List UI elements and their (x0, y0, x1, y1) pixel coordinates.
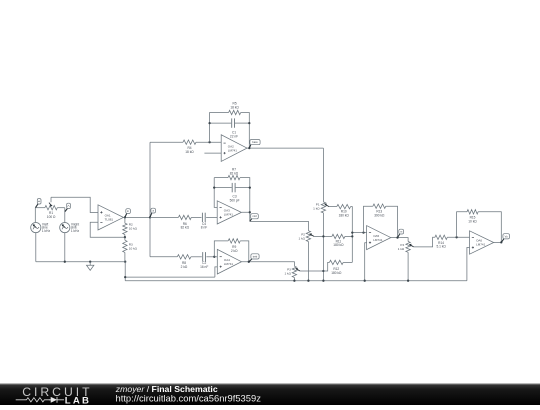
potentiometer P2 (306, 231, 314, 242)
svg-text:1 kHz: 1 kHz (71, 229, 80, 233)
junction (124, 216, 126, 218)
flag bass (249, 140, 260, 148)
label R7 (230, 168, 239, 176)
svg-text:1 kHz: 1 kHz (42, 229, 51, 233)
svg-text:5.1 kΩ: 5.1 kΩ (436, 245, 446, 249)
wire bass cap row (210, 122, 250, 124)
resistor R12 (329, 260, 343, 264)
label P3 (284, 268, 291, 276)
label R13 (374, 209, 385, 217)
footer title text (115, 384, 261, 404)
potentiometer R1 (pan) (45, 206, 57, 210)
junction (322, 280, 324, 282)
wire rail A (125, 276, 215, 278)
svg-text:180 kΩ: 180 kΩ (339, 213, 350, 217)
capacitor C1 (232, 118, 235, 127)
wire (240, 178, 250, 213)
junction (396, 236, 398, 238)
flag mid (250, 214, 258, 222)
junction (249, 211, 251, 213)
wire mid out (242, 212, 309, 230)
svg-text:1 kΩ: 1 kΩ (313, 207, 320, 211)
label R11 (333, 239, 344, 247)
wire (447, 236, 469, 238)
junction (213, 256, 215, 258)
junction (89, 261, 91, 263)
wire (35, 233, 37, 262)
label P4 (398, 243, 405, 251)
junction (64, 261, 66, 263)
label R4 (185, 146, 194, 154)
wire ground rail (36, 261, 125, 263)
resistor R7 (228, 175, 240, 179)
wire mid cap row (214, 187, 250, 189)
wire P4 bottom (407, 252, 409, 280)
svg-text:LAB: LAB (65, 395, 91, 405)
wire treb out (242, 262, 295, 266)
svg-text:2 kΩ: 2 kΩ (231, 249, 238, 253)
svg-text:16 nF: 16 nF (200, 265, 208, 269)
wire (206, 256, 217, 258)
junction (362, 231, 364, 233)
wire OA4 + to rail (215, 267, 217, 277)
wire OA6 fb right (478, 212, 501, 243)
flag Vo (501, 234, 509, 243)
svg-text:8 nF: 8 nF (201, 226, 207, 230)
wire (150, 256, 177, 258)
flag OA1 out (125, 209, 131, 218)
flag m (398, 229, 404, 237)
resistor R8 (177, 255, 191, 259)
svg-text:LM741: LM741 (224, 262, 234, 266)
wire (150, 141, 183, 143)
R1 wiper arrow (49, 197, 53, 207)
wire (345, 235, 352, 237)
wire (150, 216, 178, 218)
resistor R13 (373, 204, 386, 208)
svg-text:LM741: LM741 (373, 238, 383, 242)
junction (351, 235, 353, 237)
label R12 (331, 267, 342, 275)
svg-text:bass: bass (252, 140, 258, 144)
wire OA2 + stub (204, 152, 221, 154)
op-amp OA3 (217, 201, 241, 224)
junction (364, 280, 366, 282)
wire P1 bottom (322, 213, 324, 281)
svg-text:10 kΩ: 10 kΩ (129, 247, 138, 251)
wire P1 wiper out (329, 206, 337, 208)
junction (208, 141, 210, 143)
op-amp OA5 (367, 226, 391, 250)
svg-text:1 kΩ: 1 kΩ (284, 272, 291, 276)
svg-text:180 kΩ: 180 kΩ (333, 243, 344, 247)
junction (248, 122, 250, 124)
label C1 (230, 131, 238, 139)
wire (35, 207, 45, 209)
label C3 (230, 194, 240, 202)
CircuitLab logo (16, 385, 93, 407)
wire OA1 feedback (90, 222, 125, 237)
capacitor C4 (202, 213, 205, 222)
label C4 (201, 222, 207, 230)
label P2 (299, 233, 306, 241)
wire bass fb left (210, 113, 229, 143)
capacitor C2 (203, 252, 206, 261)
svg-text:TL081: TL081 (105, 218, 114, 222)
junction (293, 280, 295, 282)
label R15 (468, 216, 477, 224)
wire OA6 fb left (457, 212, 467, 238)
resistor R14 (435, 235, 447, 239)
junction (351, 231, 353, 233)
label V2 (71, 222, 80, 233)
resistor R9 (228, 239, 240, 243)
label R5 (230, 102, 239, 110)
junction (500, 241, 502, 243)
svg-text:100 Ω: 100 Ω (47, 215, 56, 219)
label C2 (200, 261, 208, 269)
op-amp OA1 (98, 205, 123, 230)
label R2 (129, 223, 138, 231)
op-amp OA2 (221, 135, 247, 162)
potentiometer P3 (292, 266, 300, 277)
wire OA1 out (123, 216, 150, 218)
label R3 (129, 243, 138, 251)
resistor R2 (123, 217, 127, 237)
wire (196, 141, 221, 143)
wire jog (323, 262, 329, 271)
svg-text:LM741: LM741 (228, 148, 238, 152)
wire bass out (247, 147, 323, 149)
wire (351, 207, 353, 263)
svg-text:18 kΩ: 18 kΩ (230, 106, 239, 110)
svg-text:10 kΩ: 10 kΩ (468, 220, 477, 224)
resistor R15 (467, 210, 478, 214)
svg-text:2 kΩ: 2 kΩ (181, 265, 188, 269)
junction (322, 235, 324, 237)
potentiometer P1 (321, 202, 329, 213)
wire P3 bottom (293, 278, 295, 281)
source V2 Vright (60, 223, 70, 233)
wire OA6 + to rail (467, 248, 470, 281)
svg-text:mid: mid (252, 214, 257, 218)
wire OA3 - stub (214, 178, 217, 208)
wire mid fb top (214, 177, 228, 179)
footer bar (0, 383, 540, 405)
wire (57, 207, 65, 209)
junction (124, 261, 126, 263)
source V1 Vleft (31, 223, 41, 233)
potentiometer P4 (406, 242, 414, 253)
junction node a (149, 216, 151, 218)
svg-text:LM741: LM741 (224, 213, 234, 217)
junction (248, 147, 250, 149)
wire (64, 208, 66, 223)
wire bass to P1 (322, 148, 324, 202)
svg-text:1 kΩ: 1 kΩ (398, 247, 405, 251)
flag node a (150, 208, 155, 217)
label R1 100 (47, 211, 56, 219)
svg-text:22 nF: 22 nF (230, 134, 238, 138)
svg-text:82 kΩ: 82 kΩ (230, 172, 239, 176)
svg-text:10 kΩ: 10 kΩ (129, 227, 138, 231)
wire (64, 233, 66, 262)
capacitor C3 (232, 183, 235, 192)
svg-text:m: m (400, 231, 402, 234)
junction (208, 122, 210, 124)
resistor R5 (229, 110, 241, 114)
wire P2 wiper out (314, 235, 332, 237)
label R14 (436, 241, 446, 249)
wire rail drop (124, 262, 126, 281)
wire OA5 + to rail (365, 243, 367, 281)
probe flag right (65, 203, 70, 211)
resistor R4 (183, 140, 196, 144)
svg-text:18 kΩ: 18 kΩ (185, 150, 194, 154)
label R8 (181, 261, 188, 269)
wire OA5 fb left (364, 206, 373, 232)
label R10 (339, 210, 350, 218)
wire (240, 241, 249, 262)
wire bass fb right (241, 113, 250, 149)
svg-text:treb: treb (253, 254, 258, 258)
svg-text:390 kΩ: 390 kΩ (374, 213, 385, 217)
junction (124, 236, 126, 238)
wire OA6 out (494, 241, 502, 243)
junction (249, 186, 251, 188)
junction (407, 280, 409, 282)
wire main vertical (149, 142, 151, 257)
resistor R10 (337, 204, 351, 208)
svg-text:180 kΩ: 180 kΩ (331, 271, 342, 275)
flag treb (249, 254, 259, 262)
resistor R3 (123, 237, 127, 262)
junction (307, 280, 309, 282)
ground (87, 262, 94, 271)
svg-text:http://circuitlab.com/ca56nr9f: http://circuitlab.com/ca56nr9f5359z (116, 393, 262, 404)
svg-text:500 pF: 500 pF (230, 198, 240, 202)
wire wiper to OA1+ (51, 197, 98, 212)
wire P3 wiper out (300, 270, 323, 272)
wire (191, 256, 202, 258)
label V1 (42, 222, 51, 233)
wire OA5 out (391, 238, 408, 242)
wire P4 wiper out (414, 237, 435, 247)
resistor R6 (178, 215, 191, 219)
wire (206, 216, 217, 218)
op-amp OA6 (470, 231, 494, 254)
wire (191, 216, 201, 218)
op-amp OA4 (217, 249, 241, 274)
junction (213, 186, 215, 188)
junction (124, 276, 126, 278)
wire treb fb (214, 241, 228, 257)
label R9 (231, 245, 238, 253)
wire sum bus tap (352, 232, 366, 234)
wire OA5 fb right (386, 206, 398, 237)
svg-text:LM741: LM741 (476, 243, 486, 247)
wire (34, 208, 36, 223)
wire rail B (125, 280, 467, 282)
wire P2 bottom (307, 242, 309, 281)
svg-text:1 kΩ: 1 kΩ (299, 237, 306, 241)
svg-text:82 kΩ: 82 kΩ (181, 226, 190, 230)
junction (248, 261, 250, 263)
junction (455, 236, 457, 238)
label R6 (181, 222, 190, 230)
junction (322, 270, 324, 272)
wire (343, 261, 352, 263)
resistor R11 (332, 234, 345, 238)
probe flag left (36, 199, 42, 208)
label P1 (313, 203, 320, 211)
